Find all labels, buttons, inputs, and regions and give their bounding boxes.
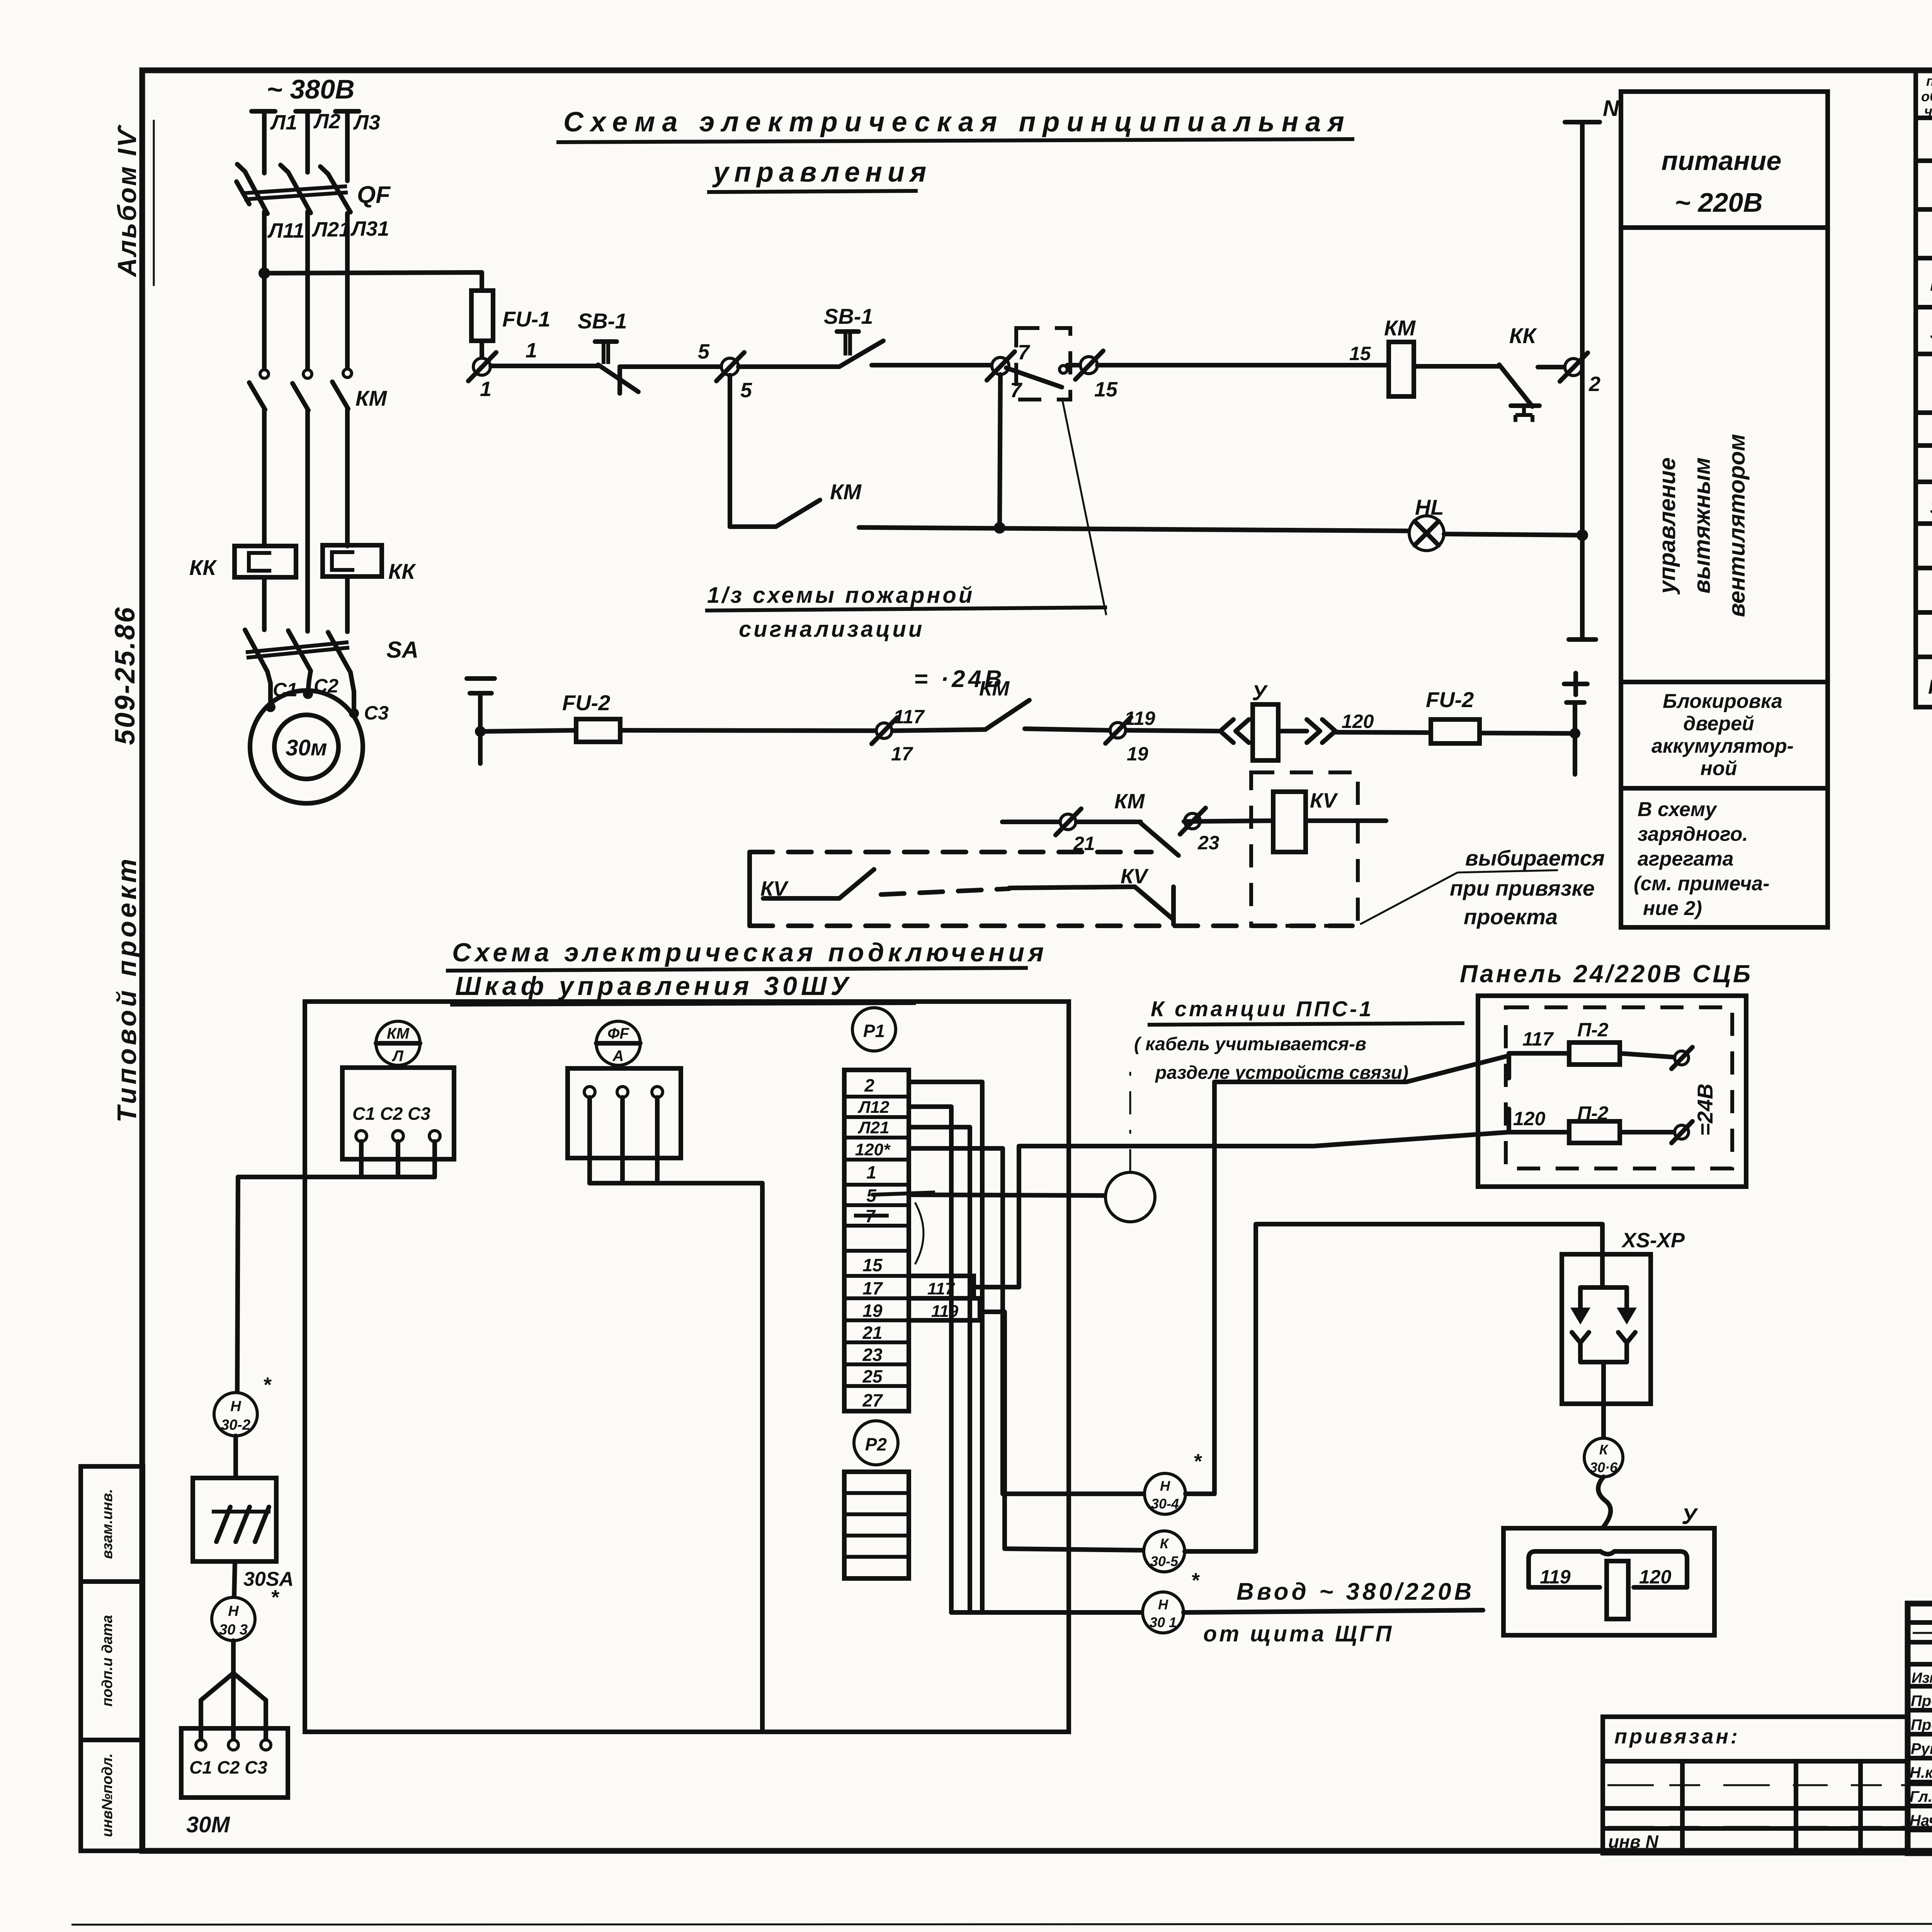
svg-text:Н: Н [1160,1478,1170,1494]
wire row4 c [1184,821,1273,821]
vvod line [951,1610,1143,1615]
svg-text:15: 15 [1349,343,1371,364]
wire phase C top [345,111,350,181]
svg-text:В схему: В схему [1638,798,1718,821]
breaker QF pole 2 [288,172,311,213]
svg-text:Проект: Проект [1911,1692,1932,1709]
svg-text:Л21: Л21 [857,1118,889,1137]
svg-text:119: 119 [931,1302,959,1321]
svg-text:Н: Н [228,1603,239,1619]
svg-text:HL: HL [1415,495,1444,519]
svg-text:1: 1 [480,378,492,401]
node 2 [1565,359,1582,376]
wire switch to 30-3 [234,1561,235,1597]
wire row1 g [1538,365,1565,369]
node 23 [1185,813,1200,829]
bus down right [760,1183,765,1732]
wire row3 f [1335,732,1431,733]
wire phase B top [305,111,310,172]
node 119/19 [1110,723,1126,738]
svg-text:проекта: проекта [1464,905,1558,929]
svg-text:Шкаф управления 30ШУ: Шкаф управления 30ШУ [455,971,852,1001]
cable circle N30-1 [1143,1592,1184,1633]
svg-text:Л11: Л11 [267,219,304,242]
wire row3 b [620,730,876,731]
breaker QF bar [243,186,347,193]
vvod line right [1184,1610,1483,1612]
svg-text:С1 С2 С3: С1 С2 С3 [352,1104,430,1124]
svg-text:1: 1 [526,339,537,362]
svg-text:*: * [1191,1569,1200,1592]
svg-text:( кабель учитывается-в: ( кабель учитывается-в [1134,1034,1366,1054]
panel dashed box [1506,1007,1732,1168]
svg-text:К станции ППС-1: К станции ППС-1 [1151,997,1374,1021]
panel outer box [1478,996,1746,1187]
cable circle N30-4 [1145,1473,1185,1514]
svg-text:30 3: 30 3 [219,1622,248,1638]
cable circle PPS [1105,1172,1155,1222]
relay coil KV [1273,792,1306,852]
wires from KM/L box to bus [359,1141,364,1177]
svg-text:FU-1: FU-1 [502,307,550,331]
wire row3 g [1480,733,1575,733]
svg-text:питание: питание [1662,146,1782,176]
svg-text:Л3: Л3 [353,111,380,134]
sub-block 117 [909,1276,974,1298]
wire phase A below KK [262,577,267,630]
N line [1565,120,1600,124]
svg-text:Панель 24/220В СЦБ: Панель 24/220В СЦБ [1460,960,1753,988]
svg-text:Л2: Л2 [313,110,340,133]
wire row1 b [620,364,721,369]
svg-text:чение: чение [1924,103,1932,119]
svg-text:~ 220В: ~ 220В [1675,187,1763,218]
svg-text:выбираетcя: выбираетcя [1465,846,1605,870]
svg-text:ФF: ФF [607,1025,629,1042]
phase ticks [252,109,275,114]
cable circle N30-3 [212,1597,255,1641]
cable circle KM/L [376,1021,420,1065]
svg-text:Рук.гр.: Рук.гр. [1911,1740,1932,1757]
svg-text:5: 5 [740,379,752,402]
dashed box KV selection [1251,772,1358,926]
motor 30m outer circle [250,690,363,803]
motor terminal c2 [303,689,313,699]
node 5 [721,358,738,375]
svg-text:П-2: П-2 [1577,1019,1609,1041]
terminal strip P1 [844,1070,909,1411]
svg-text:Блокировка: Блокировка [1663,690,1782,713]
svg-text:зарядного.: зарядного. [1638,823,1748,845]
svg-text:120: 120 [1342,711,1374,732]
svg-text:1/з схемы пожарной: 1/з схемы пожарной [707,583,975,608]
right DC terminal plus [1564,682,1587,686]
wire row3 c [893,730,985,731]
wire row 5 to PPS [909,1195,1105,1196]
wire row4 a [1002,820,1060,824]
wire phase A mid [262,212,267,369]
svg-text:XS-ХР: XS-ХР [1621,1229,1685,1252]
wire phase A lower [262,409,267,546]
svg-text:120: 120 [1513,1108,1546,1129]
wire row1 e [1097,363,1389,367]
svg-text:КМ: КМ [830,480,862,504]
wire 30-5 to XS [1185,1224,1602,1551]
svg-text:119: 119 [1124,707,1155,729]
key box [1503,1528,1714,1635]
wire L12 out [909,1107,951,1612]
cable circle K30-5 [1144,1531,1185,1572]
svg-text:управление: управление [1654,457,1680,595]
svg-text:SB-1: SB-1 [1930,321,1932,344]
svg-text:30SА: 30SА [243,1568,294,1590]
svg-text:30 1: 30 1 [1150,1614,1177,1630]
wire 117 out [974,1132,1509,1287]
svg-text:2: 2 [864,1075,874,1095]
wire to FU-1 [264,272,482,291]
svg-text:Л1: Л1 [270,111,297,134]
svg-text:27: 27 [862,1390,883,1410]
svg-text:С1 С2 С3: С1 С2 С3 [189,1757,267,1777]
terminal box FF/A [568,1068,681,1158]
wire 30-3 to motor box [231,1641,236,1673]
wire row2 [859,527,1410,531]
svg-text:N: N [1603,96,1619,121]
leader note vybiraetsya [1360,872,1458,924]
upper dashed wire [750,850,1151,854]
motor terminal box 30m [181,1728,288,1798]
leader to fire alarm note [1063,401,1106,615]
wire SA to motor c3 [350,672,354,710]
svg-text:25: 25 [862,1366,883,1386]
svg-text:21: 21 [862,1323,882,1343]
svg-text:Л12: Л12 [857,1098,889,1117]
svg-text:Л: Л [391,1048,404,1065]
svg-text:разделе устройств связи): разделе устройств связи) [1155,1063,1408,1083]
wire row1 d [872,363,992,367]
svg-text:взам.инв.: взам.инв. [99,1489,116,1559]
motor 30m inner circle [274,715,338,779]
wire 120 out to cable 30-4 [909,1148,1145,1494]
svg-text:Провер.: Провер. [1911,1716,1932,1733]
svg-text:Л31: Л31 [350,217,389,240]
svg-text:вытяжным: вытяжным [1689,457,1715,594]
svg-text:Типовой проект: Типовой проект [112,856,142,1123]
svg-text:дверей: дверей [1683,713,1754,735]
svg-text:30·6: 30·6 [1590,1459,1618,1475]
thermal relay KK box 1 [235,546,296,577]
dashed box fire contact [1016,328,1070,400]
svg-text:инв№подл.: инв№подл. [99,1753,116,1837]
svg-text:Изм.лист: Изм.лист [1912,1670,1932,1686]
svg-text:120*: 120* [855,1140,891,1159]
wire down to cable 30-2 [237,1177,238,1392]
wire 30-4 to panel [1185,1056,1509,1494]
thermal relay KK box 2 [323,545,382,577]
svg-text:аккумулятор-: аккумулятор- [1651,735,1794,757]
svg-text:КV: КV [1121,865,1149,888]
cable circle P1 [852,1008,896,1051]
cable circle FF/A [596,1021,640,1065]
svg-text:обозна-: обозна- [1921,88,1932,104]
contactor KM pole 2 [303,370,312,378]
svg-text:КК: КК [189,555,217,580]
svg-text:привязан:: привязан: [1614,1725,1740,1748]
svg-text:от щита ЩГП: от щита ЩГП [1203,1621,1394,1646]
svg-text:17: 17 [862,1278,883,1298]
node 7 [992,357,1009,374]
fire alarm changeover contact [1006,368,1062,387]
breaker QF pole 1 [245,172,267,214]
svg-text:30-4: 30-4 [1151,1496,1179,1512]
contact forks [1572,1332,1589,1343]
svg-text:при привязке: при привязке [1450,876,1595,900]
wire phase C mid [345,213,350,368]
privyazan table [1603,1717,1908,1853]
flexible wire squiggle [1598,1477,1611,1528]
wire SA to motor c2 [308,671,311,692]
dash-dot wire up to PPS note [1129,1072,1131,1172]
contactor coil KM [1389,342,1414,396]
svg-text:7: 7 [1018,341,1031,364]
wires from FF/A to bus [587,1097,592,1183]
left bracket [747,852,752,926]
svg-text:30-2: 30-2 [221,1417,250,1433]
svg-text:агрегата: агрегата [1638,848,1734,870]
svg-text:FU-2: FU-2 [562,690,610,715]
svg-text:119: 119 [1540,1566,1571,1588]
wire L21 out [909,1127,970,1612]
table grid [1916,70,1932,707]
svg-text:ной: ной [1701,757,1737,780]
svg-text:КМ: КМ [1114,790,1145,813]
switch SA pole 1 [245,630,267,672]
svg-text:Н: Н [230,1398,241,1415]
contactor KM pole 3 [343,369,352,378]
svg-text:117: 117 [893,706,925,728]
svg-text:поз.: поз. [1926,73,1932,89]
svg-text:вентилятором: вентилятором [1724,434,1750,617]
svg-text:КМ: КМ [1384,316,1416,340]
svg-text:15: 15 [1094,378,1118,401]
svg-text:15: 15 [862,1255,883,1275]
svg-text:*: * [270,1586,280,1609]
svg-text:ние 2): ние 2) [1643,897,1702,920]
svg-text:509-25.86: 509-25.86 [110,606,141,745]
svg-text:FU-1: FU-1 [1930,273,1932,295]
svg-text:30м: 30м [286,735,327,760]
svg-text:30-5: 30-5 [1150,1553,1179,1569]
node 1 [473,358,490,375]
wire to cable 30-6 [1601,1404,1606,1438]
svg-text:5: 5 [698,340,710,363]
svg-text:*: * [1193,1450,1202,1473]
junction node on phase A [259,267,270,279]
wire row1 a [491,364,598,368]
svg-text:SB-1: SB-1 [824,304,873,328]
bottom thin page line [71,1923,1932,1925]
wire row 2 out [909,1082,982,1612]
svg-text:*: * [263,1373,272,1396]
wire row4 d [1306,818,1386,823]
breaker QF pole 3 [328,174,350,212]
svg-text:сигнализации: сигнализации [739,617,924,642]
wire row1 c [738,364,839,369]
feed box [1621,92,1828,927]
cable circle K30-6 [1584,1438,1623,1477]
svg-text:Схема электрическая принци: Схема электрическая принципиальная [563,107,1351,138]
wire row2 b [1444,534,1582,535]
svg-text:КМ: КМ [387,1025,410,1042]
svg-text:~ 380В: ~ 380В [267,74,355,104]
wire node5 branch down [728,375,732,527]
svg-text:30М: 30М [186,1812,231,1837]
sub-block 119 [909,1298,980,1320]
wire phase C lower [345,408,350,546]
svg-text:Н: Н [1158,1597,1168,1612]
svg-text:23: 23 [1197,832,1219,854]
svg-text:Альбом IѴ: Альбом IѴ [112,124,142,278]
svg-text:Р2: Р2 [865,1434,887,1454]
svg-text:КМ: КМ [355,386,387,410]
wire 119 out to cable 30-5 [980,1312,1144,1550]
left margin boxes [81,1466,143,1582]
svg-text:SB-1: SB-1 [578,309,627,333]
node 15 [1080,357,1097,374]
svg-text:К: К [1599,1442,1609,1458]
svg-text:30м: 30м [1930,496,1932,519]
wire phase A top [262,111,267,173]
node 117/17 [876,723,892,738]
svg-text:Р1: Р1 [863,1021,885,1041]
fuse FU-2 right [1431,719,1480,743]
svg-text:SA: SA [386,637,418,663]
svg-text:(см. примеча-: (см. примеча- [1634,872,1770,895]
svg-text:подп.и дата: подп.и дата [99,1615,116,1707]
svg-text:120: 120 [1639,1566,1672,1588]
svg-text:КМ: КМ [979,677,1010,700]
svg-text:19: 19 [1127,743,1148,765]
contactor KM pole 1 [260,370,269,378]
svg-text:Л21: Л21 [311,218,350,241]
svg-text:FU-2: FU-2 [1426,687,1474,712]
switch SA pole 3 [328,632,350,672]
svg-text:17: 17 [891,743,913,765]
node 21 [1060,814,1076,830]
wire row3 d [1025,729,1109,730]
wire phase B mid [305,212,310,369]
svg-text:117: 117 [1522,1028,1554,1050]
terminal box KM/L [342,1068,454,1159]
svg-text:Н.контр.: Н.контр. [1910,1764,1932,1781]
switch box 30SA [193,1478,276,1561]
lower dashed wire [750,923,1358,928]
svg-text:FU-2: FU-2 [1928,676,1932,698]
svg-text:23: 23 [862,1345,883,1365]
svg-text:Схема электрическая подключ: Схема электрическая подключения [452,938,1048,967]
left DC terminal [467,676,495,681]
svg-text:Ввод ~ 380/220В: Ввод ~ 380/220В [1236,1578,1475,1605]
wire phase B lower [305,410,310,631]
cabinet enclosure [305,1002,1069,1732]
title block outer [1908,1604,1932,1853]
svg-text:управления: управления [712,157,932,188]
note fire alarm underline [705,607,1107,611]
svg-text:Гл.спец: Гл.спец [1910,1788,1932,1805]
svg-text:КК: КК [388,559,416,583]
svg-text:К: К [1160,1536,1170,1551]
fuse FU-1 [471,291,493,341]
svg-text:QF: QF [357,182,391,208]
svg-text:У: У [1252,680,1268,705]
wire row3 a [480,730,576,731]
svg-text:2: 2 [1588,372,1600,396]
svg-text:КV: КV [1310,789,1338,812]
svg-text:А: А [612,1048,624,1065]
lower blank strip [844,1472,909,1578]
svg-text:инв N: инв N [1608,1832,1658,1852]
cable circle P2 [854,1421,898,1465]
wire row1 f [1414,364,1498,369]
cable circle N30-2 [214,1393,257,1436]
svg-text:С3: С3 [364,702,389,724]
wire row3 e [1126,730,1218,731]
switch SA bar [246,642,349,652]
svg-text:КК: КК [1509,323,1537,348]
wire phase C below KK [345,577,350,632]
switch SA pole 2 [288,631,311,671]
motor terminal c1 [265,702,276,712]
junction below node7 [1000,374,1000,528]
wire row4 b [1077,820,1141,824]
wire 30-2 to switch [233,1436,238,1478]
wire SA to motor c1 [267,672,270,704]
svg-text:У: У [1682,1504,1698,1529]
svg-text:1: 1 [866,1162,876,1182]
KM aux contact [730,524,776,529]
svg-text:=24В: =24В [1693,1083,1717,1136]
socket box [1562,1254,1651,1404]
fuse FU-2 left [576,719,620,742]
arrows [1578,1287,1583,1313]
lamp HL [1409,516,1444,551]
svg-text:19: 19 [862,1301,883,1321]
jumper lines rows5-7 [871,1192,935,1195]
motor terminal c3 [349,708,359,718]
